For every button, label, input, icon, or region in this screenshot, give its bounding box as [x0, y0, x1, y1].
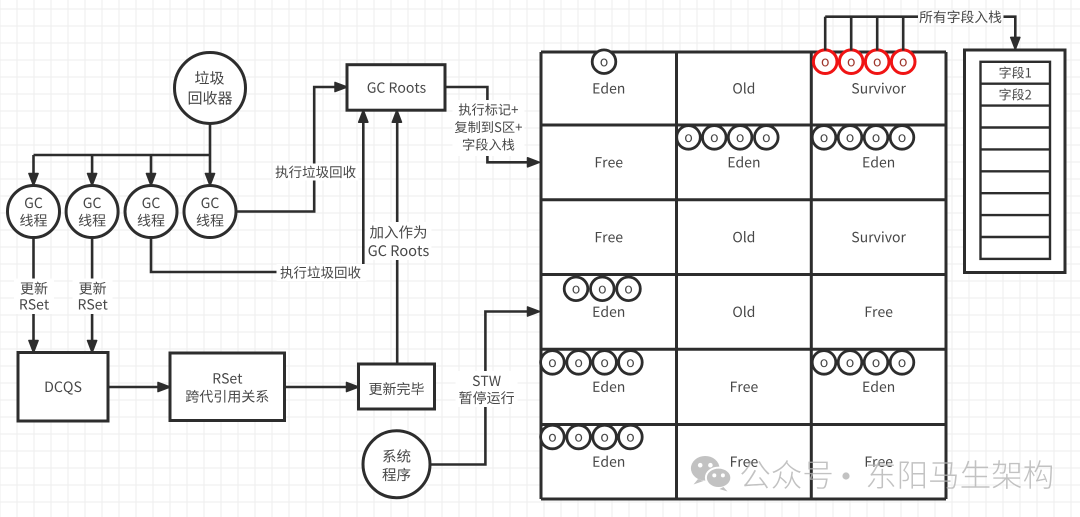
wire 更新完毕 to GC Roots (加入作为GC Roots) [366, 110, 432, 364]
label 字段2 [999, 88, 1031, 100]
label cell r5c1 Eden [594, 381, 625, 392]
label cell r4c1 Eden [594, 306, 625, 317]
circle 垃圾回收器 [175, 53, 246, 124]
objects r2c2 [677, 126, 778, 150]
label cell r1c3 Survivor [852, 83, 906, 94]
watermark 公众号东阳马生架构 [691, 456, 1052, 492]
label cell r4c2 Old [733, 306, 754, 317]
objects r6c1 [541, 425, 643, 449]
box RSet 跨代引用关系 [170, 353, 285, 421]
wire GC线程3 to GC Roots (执行垃圾回收) [151, 110, 368, 281]
label 字段1 [999, 66, 1030, 78]
circle GC线程 1 [8, 186, 60, 238]
wire 系统程序 to heap table (STW暂停运行) [430, 307, 540, 465]
objects r2c3 [812, 126, 914, 150]
box GC Roots [347, 65, 445, 111]
wire GC线程1 to DCQS [14, 238, 54, 353]
circle 系统程序 [363, 431, 430, 498]
label cell r3c2 Old [733, 231, 754, 242]
label cell r2c1 Free [596, 157, 623, 167]
objects r1c3 survivor (red) [813, 50, 915, 74]
objects r5c3 [812, 351, 914, 375]
wire RSet to 更新完毕 [285, 382, 359, 391]
label cell r5c2 Free [731, 382, 758, 392]
wire survivor objects to stack (所有字段入栈) [825, 10, 1020, 50]
objects r5c1 [541, 351, 643, 375]
label cell r2c3 Eden [863, 156, 894, 167]
box DCQS [18, 353, 108, 422]
label cell r4c3 Free [866, 307, 893, 317]
box 更新完毕 [359, 364, 435, 409]
circle GC线程 3 [125, 186, 177, 238]
wire GC线程2 to DCQS [73, 238, 113, 353]
label cell r6c1 Eden [594, 456, 625, 467]
label cell r6c2 Free [731, 457, 758, 467]
label cell r6c3 Free [866, 457, 893, 467]
wire DCQS to RSet [108, 382, 170, 391]
label cell r3c3 Survivor [852, 231, 906, 242]
wire GC Roots to heap table (执行标记复制入栈) [445, 87, 540, 167]
objects r4c1 [564, 277, 640, 301]
circle GC线程 4 [184, 186, 236, 238]
wire bracket 垃圾回收器 to GC threads [29, 124, 215, 186]
objects r1c1 [592, 50, 616, 74]
label cell r1c2 Old [733, 82, 754, 93]
label cell r3c1 Free [596, 232, 623, 242]
wire GC线程4 to GC Roots (执行垃圾回收) [236, 82, 359, 211]
label cell r2c2 Eden [729, 156, 760, 167]
label cell r5c3 Eden [863, 381, 894, 392]
heap region table 6x3 [541, 52, 946, 499]
label cell r1c1 Eden [594, 82, 625, 93]
circle GC线程 2 [66, 186, 118, 238]
stack frame box [965, 50, 1066, 273]
